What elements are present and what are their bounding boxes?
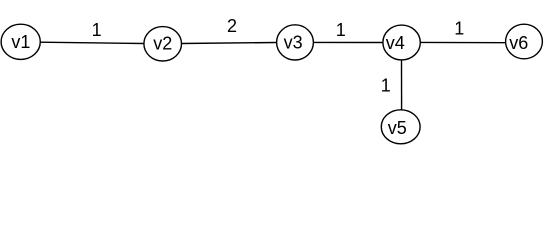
wire v4-v5	[401, 60, 403, 110]
wire v2-v3	[182, 43, 278, 44]
wire v1-v2	[40, 42, 144, 43]
svg-text:v3: v3	[284, 33, 303, 53]
node v4	[383, 25, 420, 60]
svg-text:v1: v1	[11, 32, 30, 52]
svg-text:2: 2	[227, 16, 237, 36]
node v2	[144, 27, 182, 61]
wire v3-v4	[313, 41, 383, 43]
node v3	[277, 25, 314, 60]
svg-text:1: 1	[381, 76, 391, 96]
node v5	[381, 110, 420, 144]
svg-text:1: 1	[454, 19, 464, 39]
wire v4-v6	[420, 41, 505, 43]
svg-text:v5: v5	[388, 118, 407, 138]
node v1	[1, 24, 40, 59]
node v6	[506, 24, 543, 59]
svg-text:v2: v2	[153, 33, 172, 53]
svg-text:1: 1	[336, 20, 346, 40]
svg-text:v4: v4	[386, 33, 405, 53]
svg-text:v6: v6	[509, 33, 528, 53]
svg-text:1: 1	[92, 20, 102, 40]
